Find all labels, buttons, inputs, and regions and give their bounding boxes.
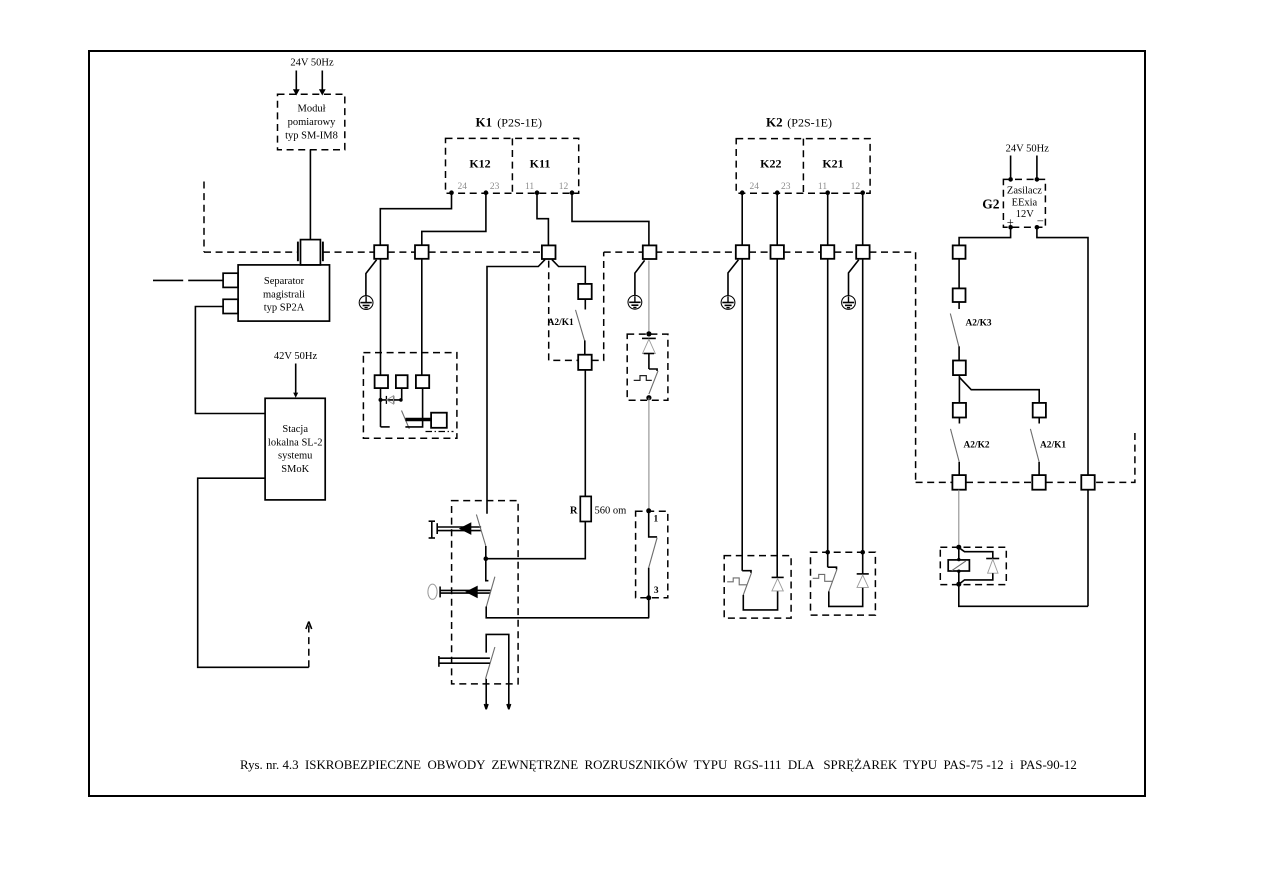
arrow into module (right): [319, 89, 326, 95]
svg-text:560 om: 560 om: [595, 506, 627, 517]
module box Modul pomiarowy typ SM-IM8: [278, 94, 345, 150]
wire S1 bottom stub: [381, 426, 390, 428]
bus connector C7: [821, 245, 834, 259]
svg-text:Rys. nr. 4.3 ISKROBEZPIECZNE: Rys. nr. 4.3 ISKROBEZPIECZNE OBWODY ZEWN…: [240, 758, 1077, 772]
svg-text:11: 11: [818, 182, 827, 192]
svg-text:23: 23: [781, 182, 791, 192]
svg-text:systemu: systemu: [278, 451, 313, 462]
stop contact blade: [486, 577, 495, 607]
bus connector C8: [856, 245, 869, 259]
coil A2: [948, 547, 969, 584]
start button actuator I: [429, 521, 435, 538]
node at float box top: [646, 331, 651, 336]
svg-text:Separator: Separator: [264, 276, 305, 287]
wire S2 to diode: [401, 388, 403, 400]
wire D2a to blade: [1038, 418, 1040, 424]
svg-text:24: 24: [458, 182, 468, 192]
wire S3 down: [405, 388, 422, 427]
relay K1 dashed box: [446, 138, 579, 193]
float contact step: [649, 369, 657, 371]
K22 diode: [772, 577, 784, 591]
wire blade to node 3: [648, 568, 650, 598]
svg-text:A2/K3: A2/K3: [966, 319, 992, 329]
node at float box bottom: [646, 395, 651, 400]
separator terminal lower: [223, 299, 238, 313]
resistor R 560 om: [580, 496, 591, 521]
wire C7 down to K21 output box: [827, 259, 829, 552]
wire K1 pin12 to C4: [572, 193, 649, 246]
svg-text:A2/K1: A2/K1: [1040, 441, 1066, 451]
terminal D1b: [952, 475, 965, 490]
arrow into module (left): [293, 89, 300, 95]
dashed drop to bus (left): [203, 182, 205, 253]
ground symbol G4: [842, 296, 856, 310]
wire minus to right drop: [1037, 227, 1088, 475]
dashed bus C8 to right corner: [869, 252, 915, 482]
svg-text:typ SP2A: typ SP2A: [264, 303, 305, 314]
junction node S1-diode: [379, 398, 383, 402]
wire B2 down to resistor: [584, 370, 586, 497]
svg-text:12V: 12V: [1016, 209, 1035, 220]
wire D0b to contact: [958, 302, 960, 309]
dashed bus segment to plug: [204, 251, 298, 253]
dashed bus C7 to C8: [834, 251, 856, 253]
node G2 N: [1035, 177, 1040, 182]
dashed bus C4 to C5: [655, 251, 736, 253]
power supply G2 dashed box Zasilacz EExia 12V: [1003, 179, 1045, 227]
ground symbol G3: [721, 296, 735, 310]
svg-text:Zasilacz: Zasilacz: [1007, 185, 1042, 196]
bus connector C1: [374, 245, 388, 259]
svg-text:A2/K2: A2/K2: [964, 441, 990, 451]
dashed bus C2 to C3: [429, 251, 542, 253]
svg-text:3: 3: [654, 586, 659, 596]
dashed bus C5 to C6: [749, 251, 771, 253]
arrow right leg: [507, 704, 511, 709]
terminal S4: [431, 413, 447, 428]
relay K2 dashed box: [736, 139, 870, 194]
svg-text:K11: K11: [530, 157, 551, 171]
K1 divider: [511, 138, 513, 193]
node 1: [646, 508, 651, 513]
wire blade to D2b: [1038, 462, 1040, 475]
separator terminal upper: [223, 273, 238, 287]
terminal S3: [416, 375, 429, 388]
K21 actuator mark: [813, 574, 833, 581]
wire B1 to contact: [584, 299, 586, 309]
float switch dashed box: [627, 334, 668, 400]
ground symbol G2c: [628, 295, 642, 309]
terminal D2a: [1033, 403, 1046, 418]
wire K2 pin11 to C7: [827, 193, 829, 246]
stop linkage double line with arrow: [440, 586, 490, 599]
left relay interface dashed box: [363, 353, 457, 439]
svg-text:R: R: [570, 506, 578, 517]
relay contact blade (left box): [402, 411, 410, 429]
wire stub into upper terminal: [153, 279, 183, 281]
wire contact to B2: [584, 340, 586, 354]
K22 output dashed box: [724, 556, 791, 619]
wire D3 down to bottom run: [1087, 490, 1089, 607]
svg-text:Stacja: Stacja: [282, 424, 308, 435]
svg-text:magistrali: magistrali: [263, 289, 305, 300]
node K21 right: [860, 550, 865, 555]
ground symbol G1: [359, 296, 373, 310]
K2 divider: [802, 139, 804, 194]
svg-text:K1: K1: [476, 115, 493, 130]
wire float box to 1-3 box: [648, 398, 650, 511]
bus connector C6: [771, 245, 784, 259]
thick link to S4: [405, 418, 431, 421]
dashed bus plug to C1: [323, 251, 374, 253]
ground lead from C8: [849, 260, 859, 296]
dashed bus D3 to right end riser: [1096, 431, 1135, 483]
wire C4 down to float box: [648, 261, 650, 334]
svg-text:K22: K22: [760, 157, 781, 171]
svg-text:12: 12: [851, 182, 861, 192]
diode in float box: [642, 338, 656, 369]
diode D1 (left box): [381, 396, 403, 404]
wire stop contact down and across: [486, 607, 649, 618]
wire D0c branch to D2a: [959, 377, 1039, 403]
svg-text:typ SM-IM8: typ SM-IM8: [285, 130, 338, 141]
wire K1 pin11 to C3: [537, 193, 548, 246]
svg-text:lokalna SL-2: lokalna SL-2: [268, 437, 323, 448]
wire node3 to bottom run: [648, 598, 650, 618]
svg-text:24: 24: [749, 182, 759, 192]
contact blade A2/K1 right: [1030, 429, 1039, 462]
blade 1-3: [649, 538, 657, 568]
wire lower terminal to stacja: [195, 307, 265, 414]
dashed bus D1b to D2b: [966, 481, 1032, 483]
wire blade to D1b: [958, 462, 960, 475]
svg-text:EExia: EExia: [1012, 197, 1038, 208]
terminal B2: [578, 355, 592, 370]
arrow left leg: [484, 704, 488, 709]
contact blade A2/K1 (middle): [576, 310, 585, 341]
wire D1a to blade: [958, 418, 960, 424]
wire arrow into stacja: [295, 364, 297, 395]
svg-text:24V 50Hz: 24V 50Hz: [1006, 144, 1050, 155]
svg-text:K21: K21: [822, 157, 843, 171]
svg-text:11: 11: [525, 182, 534, 192]
dashed bus right corner to D1b: [916, 481, 952, 483]
limit switch top bar: [486, 634, 509, 709]
dashed bus C6 to C7: [783, 251, 821, 253]
wire K2 pin12 to C8: [862, 193, 864, 246]
svg-text:pomiarowy: pomiarowy: [288, 117, 337, 128]
float contact blade: [649, 371, 658, 394]
ground lead from C1: [366, 260, 377, 296]
svg-text:Moduł: Moduł: [297, 104, 325, 115]
bus connector C2: [415, 245, 429, 259]
K22 actuator mark: [727, 578, 747, 585]
svg-text:(P2S-1E): (P2S-1E): [787, 116, 832, 130]
svg-text:1: 1: [654, 515, 659, 525]
separator box Separator magistrali typ SP2A: [238, 265, 329, 321]
wire supply L to module: [295, 71, 297, 93]
svg-text:SMoK: SMoK: [281, 464, 309, 475]
relay A2 coil dashed box: [940, 547, 1006, 584]
node G2 L: [1008, 177, 1013, 182]
float actuator mark: [634, 376, 652, 381]
wire plus to left branch: [959, 227, 1011, 245]
terminal D1a: [953, 403, 966, 418]
bus connector C3: [542, 245, 556, 259]
plug connector on separator: [301, 240, 321, 265]
svg-text:A2/K1: A2/K1: [548, 318, 574, 328]
wire G2 supply N: [1036, 156, 1038, 180]
K22 contact blade: [743, 573, 751, 595]
node 3: [646, 595, 651, 600]
pressure switch 1-3 dashed box: [636, 511, 668, 598]
terminal D0c: [953, 361, 966, 376]
chain line mark: [426, 431, 454, 433]
terminal D0: [953, 245, 966, 258]
drawing frame border: [89, 51, 1145, 796]
wire C8 down to K21 output box: [862, 259, 864, 552]
wire blade to D0c: [958, 346, 960, 360]
limit switch blade: [486, 647, 495, 679]
ground lead from C5: [728, 260, 738, 296]
pushbutton station dashed box: [452, 501, 518, 684]
wire node1 to step: [649, 511, 657, 537]
wire D0c down to D1a: [958, 375, 960, 403]
wire S1 down: [380, 388, 382, 427]
start contact blade: [476, 515, 485, 547]
contact blade A2/K2: [951, 429, 960, 462]
wire D1b down to relay coil: [958, 490, 960, 548]
wire K2 pin23 to C6: [776, 193, 778, 246]
svg-text:K12: K12: [469, 157, 490, 171]
svg-text:24V 50Hz: 24V 50Hz: [290, 58, 334, 69]
dashed box around A2/K1 contact: [549, 252, 604, 360]
svg-text:23: 23: [490, 182, 500, 192]
terminal D3: [1081, 475, 1094, 490]
bus connector C5: [736, 245, 749, 259]
terminal D2b: [1032, 475, 1045, 490]
svg-text:(P2S-1E): (P2S-1E): [497, 116, 542, 130]
node G2 plus: [1008, 225, 1013, 230]
svg-text:12: 12: [559, 182, 569, 192]
wire C5 down to K22 output box: [741, 259, 743, 571]
terminal S1: [375, 375, 388, 388]
terminal S2: [396, 375, 408, 388]
node G2 minus: [1035, 225, 1040, 230]
wire junction down to stop contact: [486, 559, 489, 581]
bus connector C4: [643, 245, 657, 259]
limit linkage double line: [439, 656, 490, 667]
wire K1 pin23 to C2: [422, 193, 486, 246]
wire C6 down to K22 output box: [776, 259, 778, 578]
wire blade to junction: [485, 546, 487, 559]
wire coil bottom to bottom run: [959, 584, 1088, 606]
wire C2 down to relay box: [421, 259, 423, 375]
node coil top: [956, 545, 961, 550]
wire D0 to D0b: [958, 259, 960, 289]
wire K1 pin24 to C1: [380, 193, 451, 246]
dashed bus D2b to D3: [1046, 481, 1082, 483]
freewheel diode of coil: [961, 549, 1000, 583]
contact blade A2/K3: [950, 314, 959, 347]
wire resistor to junction: [486, 522, 586, 559]
wire limit switch left leg: [485, 679, 487, 710]
K21 right wire into box: [862, 552, 864, 574]
terminal D0b: [953, 288, 966, 302]
K21 output dashed box: [811, 552, 876, 615]
dashed bus C1 to C2: [388, 251, 415, 253]
K22 contact step: [742, 571, 751, 573]
K21 left wire into box: [827, 552, 829, 567]
wire K2 pin24 to C5: [741, 193, 743, 246]
K22 contact bottom wire: [743, 591, 777, 610]
junction node start/R: [484, 556, 489, 561]
svg-text:G2: G2: [982, 197, 1000, 212]
wire supply N to module: [321, 71, 323, 93]
stop button actuator O: [428, 584, 437, 599]
K21 contact bottom wire: [829, 587, 863, 606]
start linkage double line with arrow: [437, 522, 481, 535]
K21 contact step: [828, 567, 837, 569]
node K21 left: [825, 550, 830, 555]
wire C1 down to relay box: [380, 259, 382, 375]
svg-text:K2: K2: [766, 115, 783, 130]
ground lead from C4: [635, 260, 645, 295]
stacja box Stacja lokalna SL-2 systemu SMoK: [265, 398, 325, 500]
wire module to plug: [309, 150, 311, 240]
wire stacja output loop: [198, 478, 309, 667]
K21 diode: [857, 574, 869, 588]
dashed bus A2/K1-box to C4: [604, 251, 643, 253]
node coil bottom: [956, 582, 961, 587]
K21 contact blade: [829, 569, 837, 591]
wire C3 V-split left branch: [487, 260, 545, 514]
dashed riser with arrow: [308, 625, 310, 667]
wire G2 supply L: [1010, 156, 1012, 180]
terminal B1: [578, 284, 592, 299]
wire C3 V-split right branch: [552, 260, 585, 284]
svg-text:42V 50Hz: 42V 50Hz: [274, 351, 318, 362]
